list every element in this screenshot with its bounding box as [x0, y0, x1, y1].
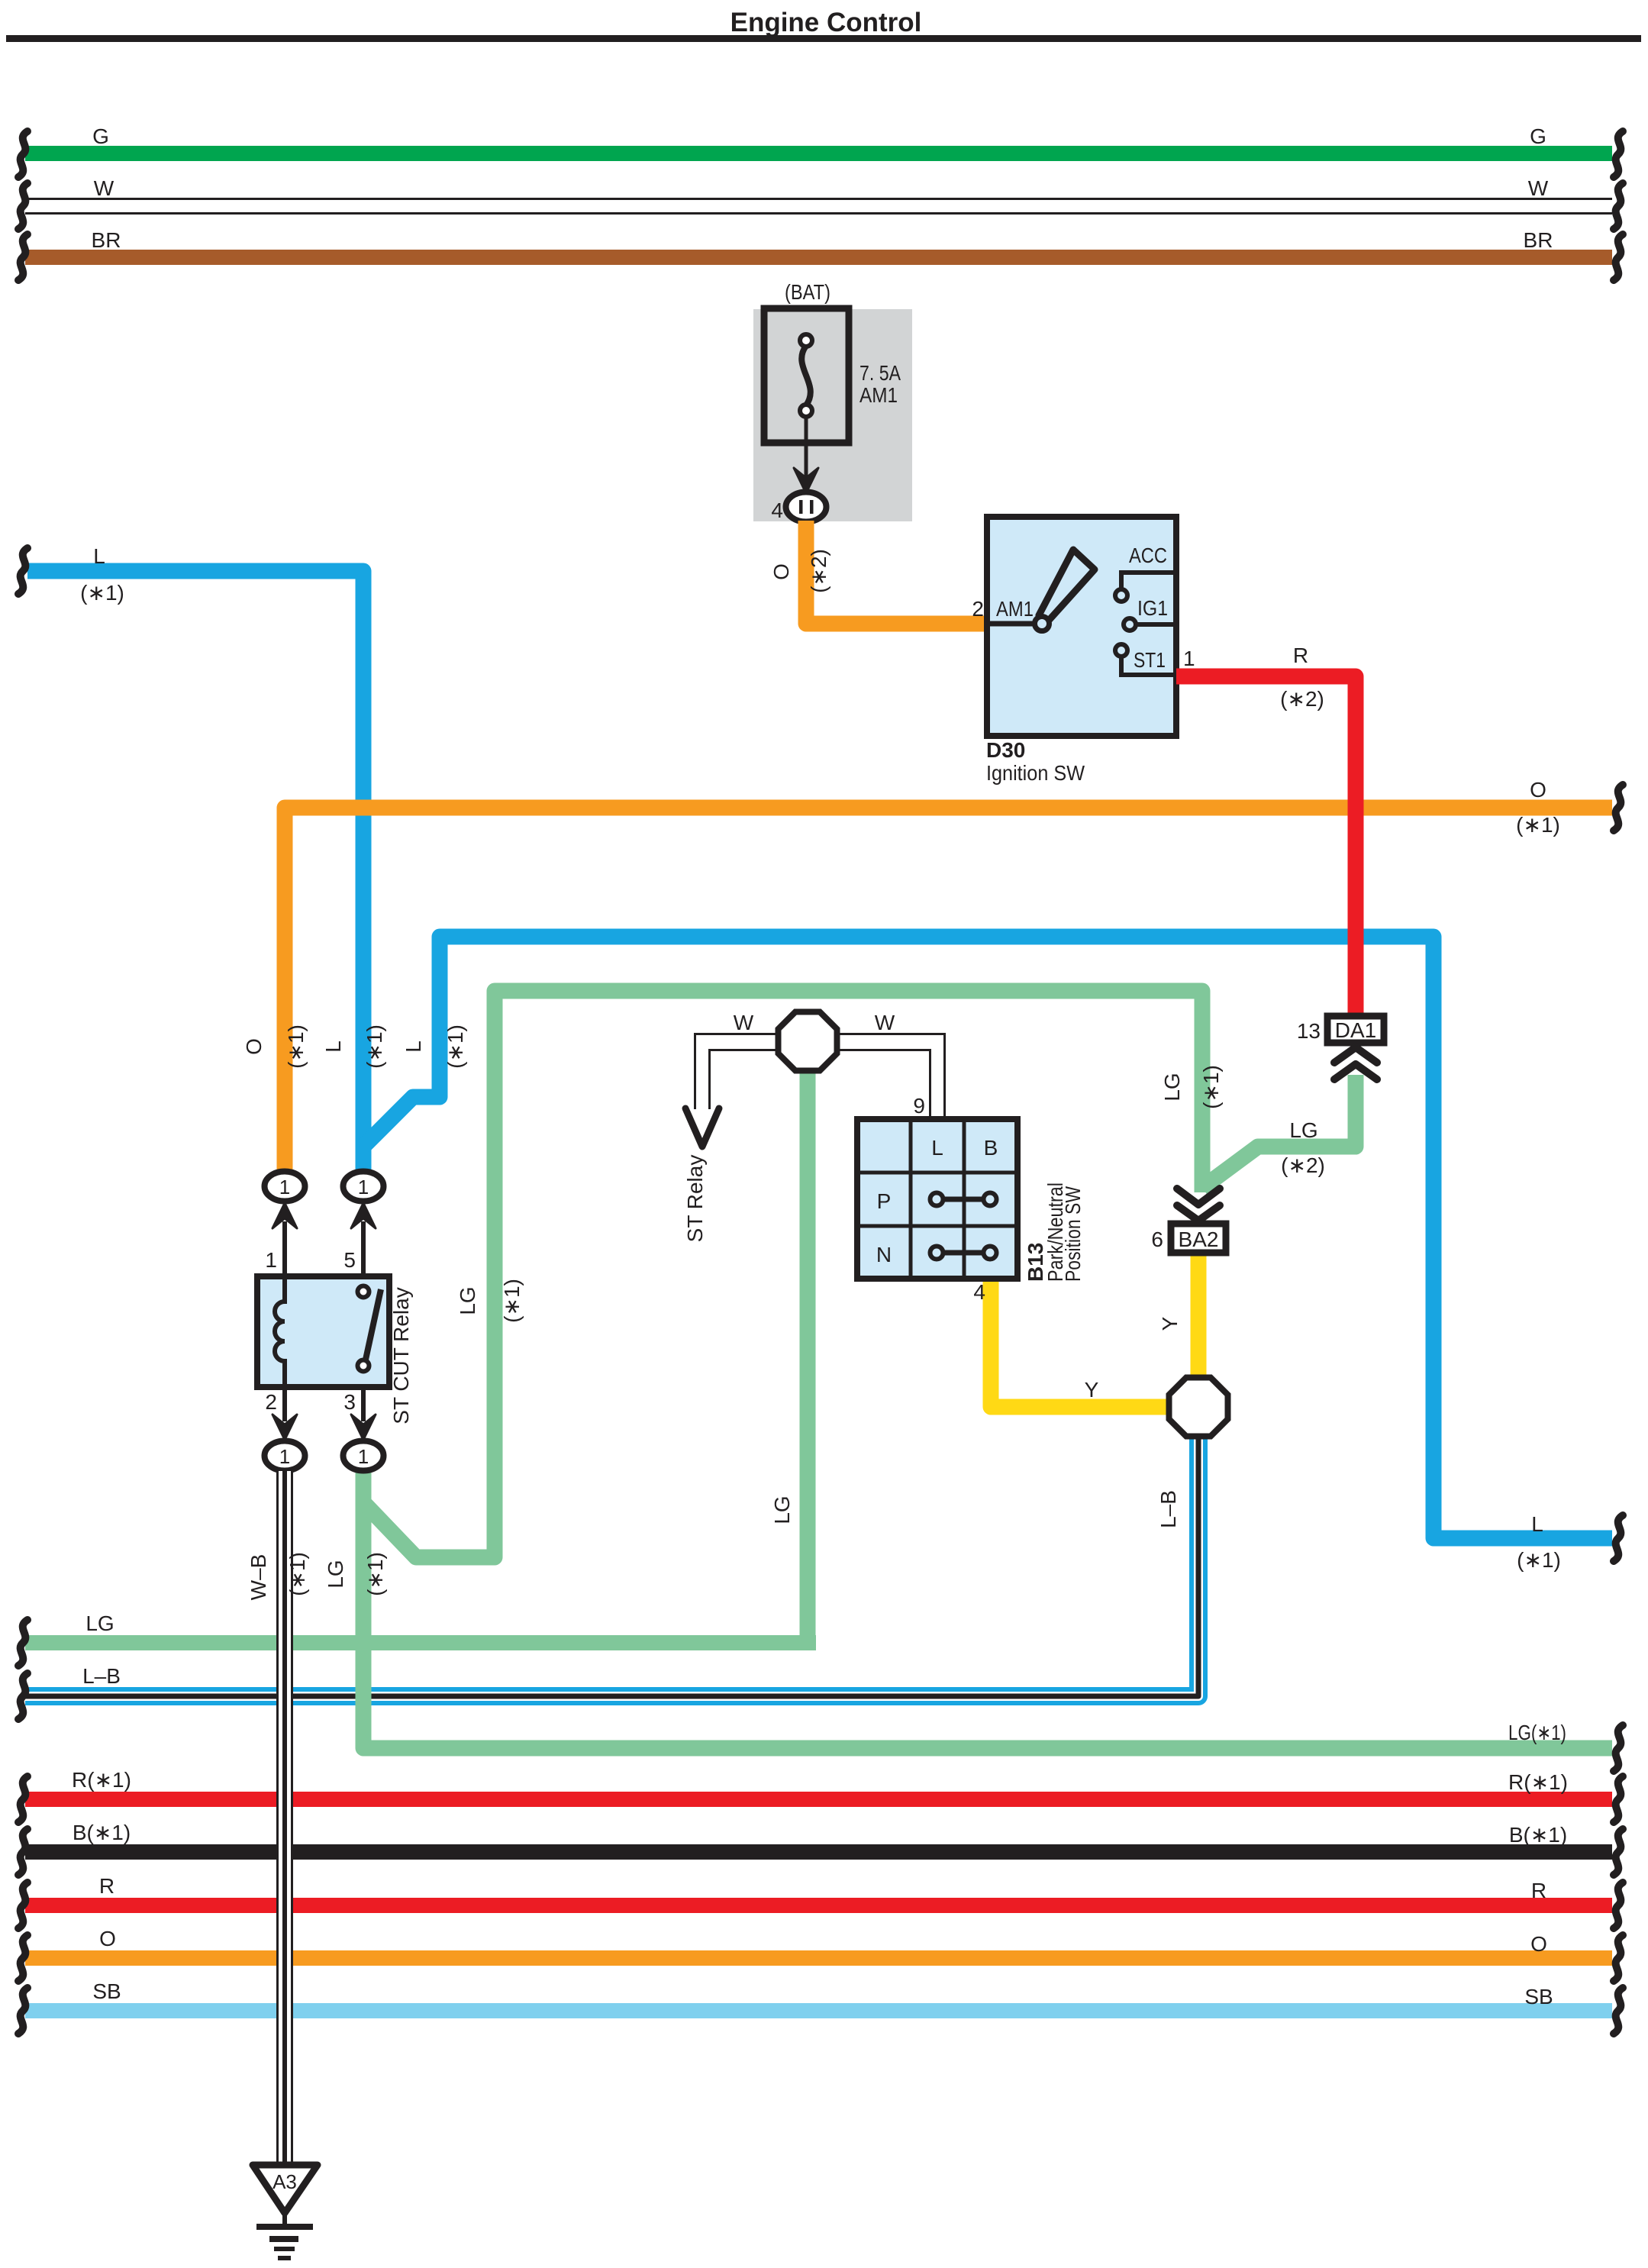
svg-text:Position SW: Position SW [1061, 1186, 1085, 1282]
svg-text:L: L [931, 1136, 943, 1160]
svg-text:7. 5A: 7. 5A [859, 361, 901, 385]
svg-text:3: 3 [343, 1390, 356, 1414]
svg-text:4: 4 [973, 1280, 985, 1304]
svg-text:LG: LG [1289, 1118, 1317, 1142]
svg-text:O: O [1530, 778, 1546, 802]
svg-text:LG: LG [85, 1611, 114, 1635]
svg-text:O: O [99, 1927, 116, 1950]
svg-text:ACC: ACC [1129, 544, 1167, 567]
svg-text:LG: LG [1160, 1073, 1184, 1101]
svg-text:L: L [93, 544, 105, 568]
svg-text:(∗1): (∗1) [1516, 813, 1560, 837]
svg-text:(∗1): (∗1) [80, 581, 124, 605]
svg-text:B(∗1): B(∗1) [73, 1821, 131, 1844]
svg-text:(∗1): (∗1) [285, 1552, 309, 1596]
svg-text:R: R [99, 1874, 114, 1898]
svg-text:A3: A3 [273, 2170, 297, 2193]
svg-text:LG: LG [456, 1286, 479, 1315]
svg-text:N: N [876, 1243, 892, 1266]
svg-text:D30: D30 [986, 738, 1025, 762]
svg-text:R(∗1): R(∗1) [1508, 1770, 1568, 1794]
svg-text:9: 9 [913, 1094, 925, 1118]
svg-text:BR: BR [92, 228, 121, 252]
svg-text:R(∗1): R(∗1) [72, 1768, 131, 1792]
svg-text:2: 2 [972, 597, 984, 621]
svg-text:P: P [877, 1189, 892, 1213]
svg-text:ST1: ST1 [1134, 648, 1166, 672]
svg-text:L: L [402, 1040, 425, 1053]
svg-text:13: 13 [1297, 1019, 1321, 1043]
svg-text:B(∗1): B(∗1) [1509, 1823, 1567, 1847]
svg-text:(∗1): (∗1) [500, 1279, 524, 1323]
svg-text:Y: Y [1085, 1378, 1099, 1402]
svg-text:L–B: L–B [1156, 1490, 1180, 1528]
svg-text:Engine Control: Engine Control [730, 8, 922, 37]
svg-text:(∗1): (∗1) [363, 1024, 386, 1069]
svg-text:LG: LG [324, 1560, 347, 1588]
svg-text:SB: SB [1524, 1985, 1553, 2008]
svg-text:1: 1 [265, 1248, 277, 1272]
svg-text:AM1: AM1 [859, 383, 898, 407]
svg-text:(∗1): (∗1) [363, 1552, 387, 1596]
svg-text:B: B [984, 1136, 998, 1160]
svg-text:1: 1 [1183, 647, 1195, 670]
svg-text:BR: BR [1524, 228, 1553, 252]
svg-text:W: W [734, 1011, 754, 1034]
svg-text:(∗2): (∗2) [1280, 687, 1324, 711]
svg-text:O: O [242, 1038, 266, 1055]
svg-text:(∗1): (∗1) [443, 1024, 467, 1069]
svg-text:(∗1): (∗1) [1199, 1065, 1223, 1109]
svg-text:DA1: DA1 [1335, 1018, 1376, 1042]
svg-text:SB: SB [92, 1979, 121, 2003]
svg-text:O: O [769, 563, 793, 580]
svg-text:R: R [1531, 1879, 1546, 1902]
svg-text:(∗1): (∗1) [1517, 1548, 1561, 1572]
svg-text:R: R [1293, 644, 1308, 667]
svg-text:Ignition SW: Ignition SW [986, 761, 1085, 785]
svg-text:4: 4 [771, 498, 783, 522]
svg-text:(∗2): (∗2) [807, 549, 830, 593]
svg-text:BA2: BA2 [1179, 1228, 1219, 1251]
svg-text:L–B: L–B [82, 1664, 121, 1688]
svg-text:W: W [875, 1011, 895, 1034]
svg-text:IG1: IG1 [1137, 596, 1168, 620]
svg-text:W: W [94, 176, 114, 200]
svg-text:G: G [1530, 124, 1546, 148]
svg-text:L: L [321, 1040, 345, 1053]
svg-text:2: 2 [265, 1390, 277, 1414]
svg-text:G: G [92, 124, 109, 148]
svg-text:L: L [1531, 1512, 1543, 1536]
svg-text:Y: Y [1158, 1316, 1182, 1331]
svg-text:W–B: W–B [247, 1554, 270, 1601]
svg-text:ST CUT Relay: ST CUT Relay [389, 1287, 413, 1424]
svg-text:(BAT): (BAT) [785, 280, 830, 304]
svg-text:ST Relay: ST Relay [683, 1155, 707, 1243]
svg-text:5: 5 [343, 1248, 356, 1272]
svg-text:LG(∗1): LG(∗1) [1508, 1721, 1566, 1744]
svg-text:LG: LG [770, 1495, 794, 1524]
svg-text:(∗1): (∗1) [284, 1024, 308, 1069]
svg-text:W: W [1528, 176, 1549, 200]
svg-text:O: O [1530, 1932, 1547, 1956]
svg-text:6: 6 [1151, 1228, 1163, 1251]
svg-text:AM1: AM1 [996, 597, 1034, 621]
svg-text:(∗2): (∗2) [1281, 1153, 1325, 1177]
